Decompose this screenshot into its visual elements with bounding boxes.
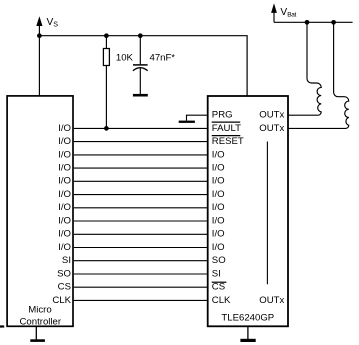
svg-text:RESET: RESET (212, 136, 244, 147)
svg-text:I/O: I/O (58, 242, 71, 253)
wire SI to SO (74, 260, 208, 262)
svg-text:10K: 10K (116, 53, 134, 64)
wire I/O 2 to RESET (74, 141, 208, 143)
svg-text:SO: SO (57, 268, 71, 279)
svg-text:I/O: I/O (58, 176, 71, 187)
svg-text:I/O: I/O (58, 229, 71, 240)
svg-text:47nF*: 47nF* (150, 53, 176, 64)
supply VBat arrow (271, 3, 277, 22)
wire VS to microcontroller (38, 36, 40, 96)
microcontroller block U1 (7, 96, 73, 326)
svg-text:I/O: I/O (58, 123, 71, 134)
wire I/O 10 (74, 247, 208, 249)
svg-text:I/O: I/O (212, 215, 225, 226)
svg-text:SI: SI (212, 268, 221, 279)
inductor L2 and wire to OUTx pin 2 (288, 22, 349, 128)
ground TLE6240GP (240, 326, 255, 342)
svg-text:I/O: I/O (58, 202, 71, 213)
junction dot resistor bottom (104, 126, 109, 131)
capacitor C1 47nF (133, 36, 148, 94)
svg-text:I/O: I/O (212, 242, 225, 253)
wire I/O 6 (74, 194, 208, 196)
svg-text:CLK: CLK (212, 295, 231, 306)
TLE6240GP block U2 (208, 96, 288, 326)
svg-text:I/O: I/O (212, 163, 225, 174)
svg-text:I/O: I/O (58, 189, 71, 200)
wire resistor to FAULT line (105, 66, 107, 129)
svg-text:I/O: I/O (212, 189, 225, 200)
wire VBat rail (274, 21, 353, 23)
svg-text:I/O: I/O (58, 149, 71, 160)
junction dot coil L2 (331, 20, 336, 25)
ground microcontroller (30, 326, 45, 342)
wire I/O 7 (74, 207, 208, 209)
svg-text:SI: SI (62, 255, 71, 266)
svg-text:OUTx: OUTx (259, 123, 284, 134)
wire rail to resistor (105, 36, 107, 49)
supply VS arrow (36, 16, 42, 36)
junction dot resistor top (104, 33, 109, 38)
svg-text:PRG: PRG (212, 110, 233, 121)
svg-text:CS: CS (212, 282, 225, 293)
svg-text:TLE6240GP: TLE6240GP (221, 313, 274, 324)
OUTx continuation line (266, 142, 268, 285)
wire I/O 4 (74, 167, 208, 169)
wire CLK (74, 299, 208, 301)
PRG jumper pad (179, 115, 208, 123)
junction dot VS (37, 33, 42, 38)
TLE pin FAULT (active low) (212, 122, 241, 134)
svg-text:CS: CS (58, 282, 71, 293)
svg-text:I/O: I/O (212, 176, 225, 187)
svg-text:FAULT: FAULT (212, 123, 241, 134)
svg-text:I/O: I/O (58, 136, 71, 147)
wire I/O 5 (74, 180, 208, 182)
svg-text:I/O: I/O (212, 202, 225, 213)
wire VS rail (39, 36, 247, 96)
wire CS (74, 286, 208, 288)
svg-text:I/O: I/O (58, 163, 71, 174)
svg-text:I/O: I/O (212, 149, 225, 160)
edge mark bottom left (0, 325, 4, 327)
wire I/O 1 to FAULT (74, 127, 208, 129)
junction dot capacitor top (138, 33, 143, 38)
svg-text:I/O: I/O (212, 229, 225, 240)
svg-text:SO: SO (212, 255, 226, 266)
wire SO to SI (74, 273, 208, 275)
svg-text:I/O: I/O (58, 215, 71, 226)
svg-text:Micro: Micro (28, 305, 51, 316)
svg-text:CLK: CLK (52, 295, 71, 306)
wire I/O 9 (74, 233, 208, 235)
wire I/O 8 (74, 220, 208, 222)
svg-text:OUTx: OUTx (259, 110, 284, 121)
svg-text:OUTx: OUTx (259, 295, 284, 306)
junction dot coil L1 (305, 20, 310, 25)
TLE pin CS (active low) (212, 282, 227, 293)
ground capacitor (133, 94, 148, 97)
TLE pin RESET (active low) (212, 136, 244, 147)
svg-text:Controller: Controller (20, 317, 62, 328)
resistor R1 10K (103, 49, 109, 66)
wire I/O 3 (74, 154, 208, 156)
inductor L1 and wire to OUTx pin 1 (288, 22, 321, 115)
